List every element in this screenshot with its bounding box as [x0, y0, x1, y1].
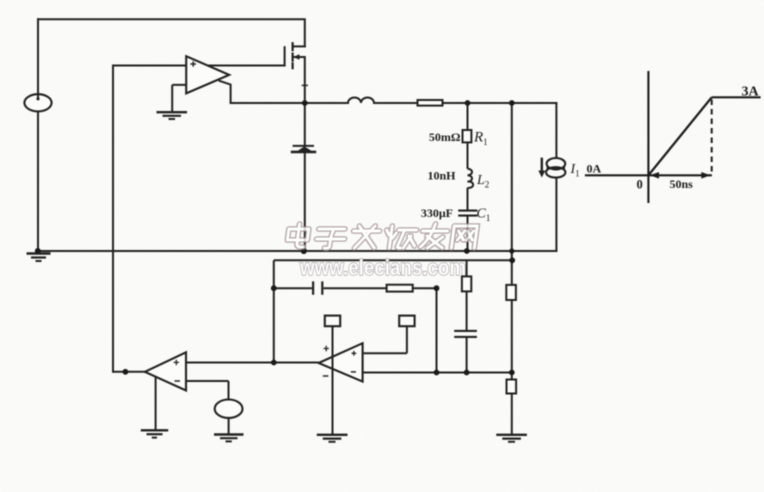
svg-text:50mΩ: 50mΩ [429, 130, 461, 144]
svg-text:0A: 0A [587, 162, 602, 176]
svg-text:330μF: 330μF [421, 206, 453, 220]
svg-text:10nH: 10nH [427, 169, 456, 183]
svg-text:3A: 3A [742, 85, 760, 100]
svg-text:50ns: 50ns [670, 177, 694, 191]
svg-text:www.elecians.com: www.elecians.com [299, 255, 466, 280]
svg-text:0: 0 [637, 177, 643, 191]
